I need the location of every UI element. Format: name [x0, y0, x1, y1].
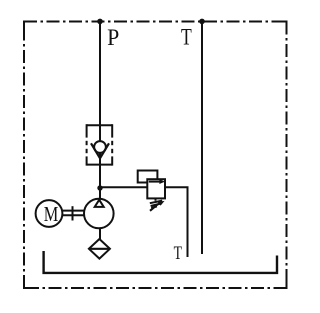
pump circle: [84, 199, 114, 229]
wire: P line vertical: [99, 22, 101, 240]
pump triangle (outlet up): [95, 200, 104, 207]
wire: relief valve outlet to tank: [165, 187, 188, 257]
wire: T line vertical: [201, 22, 203, 255]
filter element line: [89, 248, 110, 250]
svg-text:T: T: [174, 242, 182, 264]
relief valve pilot box: [138, 171, 158, 183]
motor M circle: [36, 200, 63, 227]
svg-text:M: M: [44, 203, 59, 226]
enclosure border left: [23, 22, 25, 289]
relief valve adjustment arrow: [150, 204, 158, 211]
filter diamond: [89, 239, 110, 259]
enclosure border right: [286, 22, 288, 289]
enclosure border bottom: [24, 287, 287, 289]
tank: [44, 251, 277, 273]
wire: junction to relief valve: [100, 186, 147, 188]
border corner reinforcements: [24, 22, 287, 289]
node P (dot on border): [97, 19, 103, 25]
enclosure border (dash-dot) top: [24, 21, 287, 23]
svg-text:T: T: [181, 24, 192, 50]
svg-text:P: P: [107, 24, 119, 50]
check valve V1 enclosure rect: [87, 124, 113, 165]
node: junction P line / relief line: [97, 185, 102, 190]
relief valve spring: [155, 199, 157, 201]
check valve ball: [94, 141, 106, 153]
check valve seat (V): [91, 143, 109, 158]
node T (dot on border): [199, 19, 205, 25]
relief valve flow arrow: [149, 181, 160, 183]
relief valve body: [147, 179, 165, 198]
shaft coupling: [63, 206, 85, 220]
